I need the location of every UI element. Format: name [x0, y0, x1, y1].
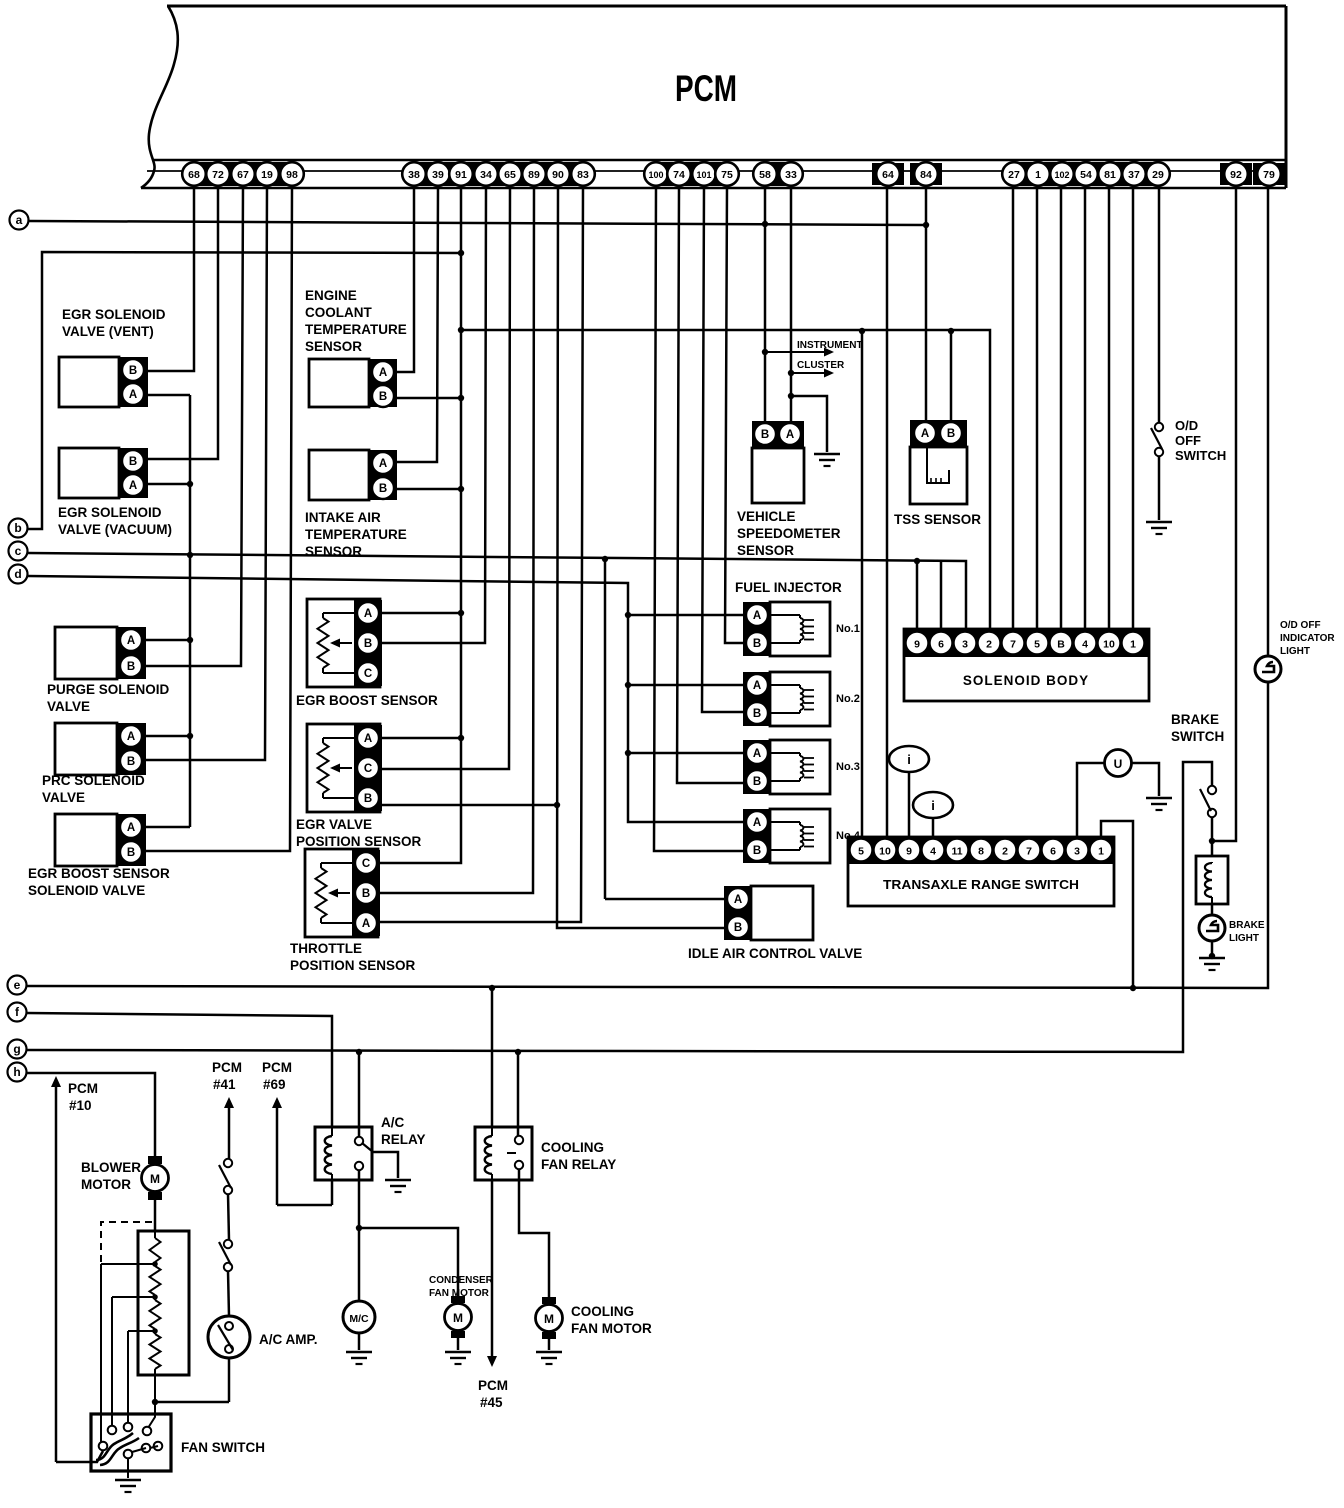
svg-text:No.2: No.2 [836, 693, 860, 705]
svg-text:B: B [761, 429, 769, 441]
svg-text:A: A [127, 731, 135, 743]
svg-text:EGR VALVE: EGR VALVE [296, 817, 372, 832]
svg-text:d: d [14, 567, 21, 581]
svg-text:34: 34 [480, 169, 492, 181]
svg-text:M: M [150, 1172, 160, 1186]
svg-text:B: B [753, 638, 761, 650]
svg-text:SWITCH: SWITCH [1175, 448, 1226, 463]
svg-text:EGR BOOST SENSOR: EGR BOOST SENSOR [28, 866, 170, 881]
svg-text:BRAKE: BRAKE [1171, 712, 1219, 727]
svg-text:SPEEDOMETER: SPEEDOMETER [737, 526, 841, 541]
svg-text:No.3: No.3 [836, 761, 860, 773]
svg-text:7: 7 [1010, 639, 1016, 651]
svg-text:c: c [15, 544, 22, 558]
svg-text:3: 3 [1074, 846, 1080, 858]
svg-text:B: B [379, 483, 387, 495]
svg-text:EGR SOLENOID: EGR SOLENOID [58, 505, 162, 520]
svg-text:CONDENSER: CONDENSER [429, 1275, 494, 1286]
svg-text:B: B [947, 428, 955, 440]
svg-text:PCM: PCM [675, 68, 737, 109]
svg-text:A: A [786, 429, 794, 441]
svg-text:#45: #45 [480, 1395, 503, 1410]
svg-text:98: 98 [286, 169, 298, 181]
svg-text:SENSOR: SENSOR [305, 544, 362, 559]
svg-text:PCM: PCM [68, 1081, 98, 1096]
svg-text:OFF: OFF [1175, 433, 1201, 448]
svg-text:CLUSTER: CLUSTER [797, 360, 845, 371]
svg-text:LIGHT: LIGHT [1280, 646, 1310, 657]
svg-text:6: 6 [938, 639, 944, 651]
svg-text:B: B [129, 365, 137, 377]
svg-text:TEMPERATURE: TEMPERATURE [305, 322, 407, 337]
svg-text:91: 91 [455, 169, 467, 181]
svg-text:102: 102 [1054, 170, 1069, 180]
svg-text:2: 2 [1002, 846, 1008, 858]
svg-text:89: 89 [528, 169, 540, 181]
svg-text:SOLENOID BODY: SOLENOID BODY [963, 673, 1089, 688]
svg-text:11: 11 [951, 846, 962, 858]
svg-text:B: B [379, 391, 387, 403]
svg-text:100: 100 [648, 170, 663, 180]
svg-text:No.1: No.1 [836, 623, 860, 635]
svg-text:27: 27 [1008, 169, 1020, 181]
svg-text:COOLANT: COOLANT [305, 305, 372, 320]
svg-text:10: 10 [1103, 639, 1115, 651]
svg-text:19: 19 [261, 169, 273, 181]
svg-text:IDLE AIR CONTROL VALVE: IDLE AIR CONTROL VALVE [688, 946, 862, 961]
svg-text:3: 3 [962, 639, 968, 651]
svg-text:33: 33 [785, 169, 797, 181]
svg-text:90: 90 [552, 169, 564, 181]
svg-text:TEMPERATURE: TEMPERATURE [305, 527, 407, 542]
svg-text:FUEL INJECTOR: FUEL INJECTOR [735, 580, 842, 595]
svg-text:i: i [931, 798, 935, 813]
svg-text:A: A [753, 817, 761, 829]
svg-text:9: 9 [906, 846, 912, 858]
svg-text:9: 9 [914, 639, 920, 651]
svg-text:O/D: O/D [1175, 418, 1198, 433]
svg-text:39: 39 [432, 169, 444, 181]
svg-text:A: A [127, 635, 135, 647]
svg-text:B: B [127, 756, 135, 768]
svg-text:g: g [13, 1042, 20, 1056]
svg-text:THROTTLE: THROTTLE [290, 941, 362, 956]
svg-text:B: B [1057, 639, 1065, 651]
svg-text:8: 8 [978, 846, 984, 858]
svg-text:A/C AMP.: A/C AMP. [259, 1332, 318, 1347]
svg-text:PCM: PCM [212, 1060, 242, 1075]
svg-text:PURGE SOLENOID: PURGE SOLENOID [47, 682, 170, 697]
svg-text:29: 29 [1152, 169, 1164, 181]
svg-text:A: A [362, 918, 370, 930]
svg-text:FAN RELAY: FAN RELAY [541, 1157, 616, 1172]
svg-text:B: B [734, 922, 742, 934]
svg-text:h: h [13, 1065, 20, 1079]
svg-text:4: 4 [930, 846, 936, 858]
svg-text:A: A [364, 733, 372, 745]
svg-text:EGR BOOST SENSOR: EGR BOOST SENSOR [296, 693, 438, 708]
svg-text:B: B [753, 708, 761, 720]
svg-text:2: 2 [986, 639, 992, 651]
svg-text:#69: #69 [263, 1077, 286, 1092]
svg-text:1: 1 [1130, 639, 1136, 651]
svg-text:37: 37 [1128, 169, 1140, 181]
svg-text:92: 92 [1230, 169, 1242, 181]
svg-text:10: 10 [879, 846, 891, 858]
svg-text:PRC SOLENOID: PRC SOLENOID [42, 773, 145, 788]
svg-text:A: A [379, 367, 387, 379]
svg-text:C: C [364, 763, 372, 775]
svg-text:TSS SENSOR: TSS SENSOR [894, 512, 981, 527]
svg-text:b: b [14, 521, 21, 535]
svg-text:72: 72 [212, 169, 224, 181]
svg-text:PCM: PCM [262, 1060, 292, 1075]
svg-text:64: 64 [882, 169, 894, 181]
svg-text:SWITCH: SWITCH [1171, 729, 1224, 744]
svg-text:101: 101 [696, 170, 711, 180]
svg-text:B: B [753, 845, 761, 857]
svg-text:4: 4 [1082, 639, 1088, 651]
svg-text:i: i [907, 752, 911, 767]
svg-text:MOTOR: MOTOR [81, 1177, 131, 1192]
svg-text:VALVE: VALVE [42, 790, 85, 805]
svg-text:1: 1 [1098, 846, 1104, 858]
svg-text:A: A [753, 748, 761, 760]
svg-text:A: A [379, 458, 387, 470]
svg-text:INDICATOR: INDICATOR [1280, 633, 1335, 644]
svg-text:SOLENOID VALVE: SOLENOID VALVE [28, 883, 145, 898]
svg-text:VALVE (VACUUM): VALVE (VACUUM) [58, 522, 172, 537]
svg-text:FAN MOTOR: FAN MOTOR [571, 1321, 652, 1336]
svg-text:B: B [362, 888, 370, 900]
svg-text:#41: #41 [213, 1077, 236, 1092]
svg-text:74: 74 [673, 169, 685, 181]
svg-text:M/C: M/C [349, 1313, 369, 1325]
svg-text:LIGHT: LIGHT [1229, 933, 1259, 944]
svg-text:U: U [1114, 757, 1123, 771]
svg-text:B: B [127, 661, 135, 673]
svg-text:M: M [453, 1311, 463, 1325]
svg-text:A: A [364, 608, 372, 620]
svg-text:A/C: A/C [381, 1115, 405, 1130]
svg-text:B: B [364, 793, 372, 805]
svg-text:C: C [364, 668, 372, 680]
svg-text:A: A [129, 480, 137, 492]
svg-text:5: 5 [858, 846, 864, 858]
svg-text:58: 58 [759, 169, 771, 181]
svg-text:B: B [127, 847, 135, 859]
svg-text:#10: #10 [69, 1098, 92, 1113]
svg-text:BLOWER: BLOWER [81, 1160, 141, 1175]
svg-text:A: A [753, 680, 761, 692]
svg-text:79: 79 [1263, 169, 1275, 181]
svg-text:68: 68 [188, 169, 200, 181]
svg-text:COOLING: COOLING [541, 1140, 604, 1155]
svg-text:INTAKE AIR: INTAKE AIR [305, 510, 381, 525]
svg-text:B: B [753, 776, 761, 788]
svg-text:POSITION SENSOR: POSITION SENSOR [290, 958, 416, 973]
svg-text:65: 65 [504, 169, 516, 181]
svg-text:ENGINE: ENGINE [305, 288, 357, 303]
svg-text:A: A [753, 610, 761, 622]
svg-text:RELAY: RELAY [381, 1132, 426, 1147]
svg-text:83: 83 [577, 169, 589, 181]
svg-text:EGR SOLENOID: EGR SOLENOID [62, 307, 166, 322]
svg-text:a: a [16, 213, 23, 227]
svg-text:84: 84 [920, 169, 932, 181]
svg-text:COOLING: COOLING [571, 1304, 634, 1319]
svg-text:TRANSAXLE RANGE SWITCH: TRANSAXLE RANGE SWITCH [883, 877, 1079, 892]
svg-text:81: 81 [1104, 169, 1116, 181]
svg-text:38: 38 [408, 169, 420, 181]
svg-text:SENSOR: SENSOR [737, 543, 794, 558]
svg-text:1: 1 [1035, 169, 1041, 181]
svg-text:e: e [14, 978, 21, 992]
svg-text:A: A [734, 894, 742, 906]
svg-text:VALVE: VALVE [47, 699, 90, 714]
svg-text:75: 75 [721, 169, 733, 181]
svg-text:A: A [921, 428, 929, 440]
svg-text:O/D OFF: O/D OFF [1280, 620, 1321, 631]
svg-text:FAN MOTOR: FAN MOTOR [429, 1288, 490, 1299]
svg-text:VALVE (VENT): VALVE (VENT) [62, 324, 154, 339]
svg-text:67: 67 [237, 169, 249, 181]
svg-text:BRAKE: BRAKE [1229, 920, 1265, 931]
svg-text:B: B [364, 638, 372, 650]
svg-text:C: C [362, 858, 370, 870]
svg-text:POSITION SENSOR: POSITION SENSOR [296, 834, 422, 849]
svg-text:6: 6 [1050, 846, 1056, 858]
svg-text:A: A [129, 389, 137, 401]
svg-text:PCM: PCM [478, 1378, 508, 1393]
svg-text:SENSOR: SENSOR [305, 339, 362, 354]
svg-text:A: A [127, 822, 135, 834]
svg-text:54: 54 [1080, 169, 1092, 181]
svg-text:7: 7 [1026, 846, 1032, 858]
svg-text:INSTRUMENT: INSTRUMENT [797, 340, 863, 351]
svg-text:FAN SWITCH: FAN SWITCH [181, 1440, 265, 1455]
svg-text:5: 5 [1034, 639, 1040, 651]
svg-text:VEHICLE: VEHICLE [737, 509, 796, 524]
svg-text:B: B [129, 456, 137, 468]
svg-text:M: M [544, 1312, 554, 1326]
